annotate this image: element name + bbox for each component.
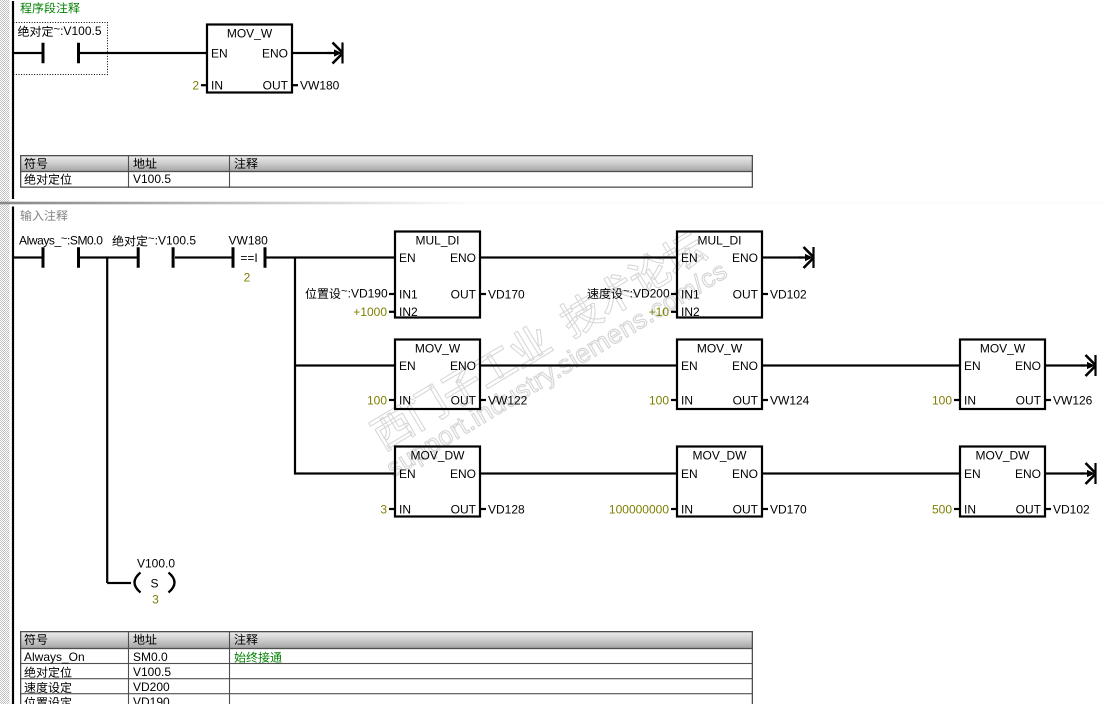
svg-text:MOV_W: MOV_W	[227, 26, 273, 40]
svg-text:OUT: OUT	[1016, 502, 1042, 516]
svg-text:VD170: VD170	[488, 287, 525, 301]
svg-text:OUT: OUT	[1016, 393, 1042, 407]
svg-text:ENO: ENO	[450, 467, 476, 481]
svg-text:EN: EN	[681, 359, 698, 373]
svg-text:IN: IN	[964, 393, 976, 407]
svg-text:IN: IN	[681, 393, 693, 407]
svg-text:VD102: VD102	[1053, 502, 1090, 516]
svg-text:~​:V100.5: ~​:V100.5	[54, 23, 102, 38]
svg-text:EN: EN	[399, 467, 416, 481]
svg-text:MOV_W: MOV_W	[980, 341, 1026, 355]
svg-text:IN1: IN1	[681, 287, 700, 301]
svg-text:IN: IN	[399, 393, 411, 407]
svg-text:S: S	[150, 576, 158, 590]
svg-text:VW126: VW126	[1053, 393, 1093, 407]
svg-text:OUT: OUT	[263, 79, 289, 93]
svg-text:OUT: OUT	[451, 502, 477, 516]
svg-text:V100.5: V100.5	[133, 665, 171, 679]
svg-text:ENO: ENO	[450, 359, 476, 373]
svg-text:VW180: VW180	[300, 79, 340, 93]
svg-text:ENO: ENO	[450, 251, 476, 265]
svg-text:EN: EN	[681, 467, 698, 481]
svg-text:MOV_DW: MOV_DW	[976, 448, 1031, 462]
svg-text:MUL_DI: MUL_DI	[697, 233, 741, 247]
svg-text:ENO: ENO	[732, 251, 758, 265]
svg-text:+1000: +1000	[353, 305, 387, 319]
svg-text:==I: ==I	[240, 251, 257, 265]
svg-text:MOV_DW: MOV_DW	[693, 448, 748, 462]
svg-text:100: 100	[367, 393, 387, 407]
svg-text:IN1: IN1	[399, 287, 418, 301]
svg-text:~​:VD190: ~​:VD190	[341, 286, 388, 301]
svg-text:+10: +10	[649, 305, 670, 319]
svg-text:ENO: ENO	[262, 46, 288, 60]
svg-text:VD170: VD170	[770, 502, 807, 516]
svg-text:~​:V100.5: ~​:V100.5	[148, 233, 196, 248]
svg-text:IN2: IN2	[681, 305, 700, 319]
svg-text:OUT: OUT	[451, 287, 477, 301]
svg-text:OUT: OUT	[733, 287, 759, 301]
svg-text:VW122: VW122	[488, 393, 528, 407]
svg-text:Always_On: Always_On	[24, 650, 85, 664]
svg-text:V100.0: V100.0	[137, 556, 175, 570]
svg-text:100000000: 100000000	[609, 502, 669, 516]
svg-text:VD128: VD128	[488, 502, 525, 516]
svg-text:2: 2	[192, 79, 199, 93]
svg-text:EN: EN	[399, 251, 416, 265]
svg-text:3: 3	[380, 502, 387, 516]
svg-text:ENO: ENO	[732, 467, 758, 481]
svg-text:100: 100	[932, 393, 952, 407]
svg-text:EN: EN	[399, 359, 416, 373]
svg-text:ENO: ENO	[1015, 467, 1041, 481]
svg-text:MOV_W: MOV_W	[697, 341, 743, 355]
svg-text:IN: IN	[211, 79, 223, 93]
svg-text:VD102: VD102	[770, 287, 807, 301]
svg-text:EN: EN	[964, 359, 981, 373]
svg-text:EN: EN	[211, 46, 228, 60]
svg-text:~​:VD200: ~​:VD200	[623, 286, 670, 301]
svg-text:OUT: OUT	[451, 393, 477, 407]
svg-text:3: 3	[152, 593, 159, 607]
svg-text:500: 500	[932, 502, 952, 516]
svg-text:OUT: OUT	[733, 393, 759, 407]
svg-text:VD200: VD200	[133, 680, 170, 694]
svg-text:VW180: VW180	[229, 234, 269, 248]
svg-text:100: 100	[649, 393, 669, 407]
svg-text:IN: IN	[681, 502, 693, 516]
svg-text:ENO: ENO	[1015, 359, 1041, 373]
svg-text:ENO: ENO	[732, 359, 758, 373]
svg-text:VD190: VD190	[133, 695, 170, 704]
svg-text:OUT: OUT	[733, 502, 759, 516]
svg-text:VW124: VW124	[770, 393, 810, 407]
svg-text:V100.5: V100.5	[133, 172, 171, 186]
svg-text:MUL_DI: MUL_DI	[415, 233, 459, 247]
svg-text:EN: EN	[964, 467, 981, 481]
svg-text:EN: EN	[681, 251, 698, 265]
svg-text:SM0.0: SM0.0	[133, 650, 168, 664]
svg-text:IN: IN	[399, 502, 411, 516]
svg-text:IN2: IN2	[399, 305, 418, 319]
svg-text:MOV_W: MOV_W	[415, 341, 461, 355]
svg-text:IN: IN	[964, 502, 976, 516]
svg-text:MOV_DW: MOV_DW	[411, 448, 466, 462]
svg-text:2: 2	[244, 271, 251, 285]
